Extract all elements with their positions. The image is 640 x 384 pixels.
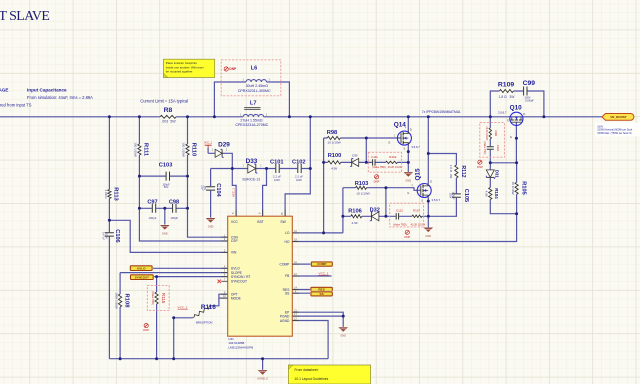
capacitor C110 (DNP): [483, 142, 500, 155]
net label COMP: [310, 261, 333, 267]
svg-text:100 1/10W: 100 1/10W: [182, 142, 186, 157]
svg-text:10 1/10W: 10 1/10W: [327, 141, 340, 145]
DNP marker L6: [224, 67, 237, 71]
DNP box around R115: [147, 286, 169, 311]
wire Q15 source: [427, 198, 429, 228]
net label RES: [310, 286, 333, 292]
svg-text:D29: D29: [218, 141, 230, 148]
junction: [138, 175, 141, 178]
wire SW pin branch: [285, 117, 310, 216]
svg-text:PGND: PGND: [280, 314, 290, 318]
op-amp U31 controller LM5122: [228, 216, 293, 336]
designator U31: [228, 337, 253, 349]
svg-text:G: G: [407, 191, 409, 195]
svg-text:S: S: [507, 118, 509, 122]
DNP marker R99: [477, 160, 483, 169]
ground sense divider: [160, 225, 170, 235]
junction: [365, 161, 368, 164]
wire HO net: [292, 214, 516, 242]
resistor R98: [327, 130, 341, 145]
svg-text:D33: D33: [246, 158, 258, 165]
svg-text:C112: C112: [396, 209, 403, 213]
svg-text:GND: GND: [405, 178, 411, 182]
junction: [384, 186, 387, 189]
diode D33: [243, 158, 263, 181]
DNP marker C111: [374, 175, 380, 184]
svg-text:200V: 200V: [449, 193, 452, 199]
svg-text:COMP: COMP: [279, 262, 290, 266]
junction: [261, 357, 264, 360]
svg-text:DNP: DNP: [143, 328, 149, 332]
svg-text:100pF: 100pF: [149, 216, 157, 220]
svg-text:SYNCOUT: SYNCOUT: [135, 275, 149, 279]
wire VIN pin: [109, 220, 227, 252]
DNP box around C112 R107: [390, 203, 424, 227]
junction: [515, 212, 518, 215]
svg-text:R103: R103: [355, 181, 369, 187]
svg-text:From datasheet:: From datasheet:: [295, 368, 319, 372]
wire R106 row: [343, 215, 386, 217]
svg-text:D31: D31: [495, 170, 500, 179]
wire LO riser 1: [323, 138, 325, 233]
resistor R110: [182, 142, 197, 157]
svg-text:G: G: [510, 135, 512, 139]
junction: [384, 215, 387, 218]
DNP box around L6: [221, 60, 281, 96]
wire COMP stub: [292, 263, 311, 265]
wire FB net: [292, 275, 331, 277]
wire SW rail right: [264, 116, 602, 118]
wire AGND_S rail: [109, 358, 328, 360]
svg-text:HO: HO: [284, 240, 289, 244]
svg-text:R110: R110: [191, 143, 197, 157]
svg-text:DNP: DNP: [374, 179, 380, 183]
svg-text:AGND_S: AGND_S: [257, 376, 268, 380]
svg-text:100V: 100V: [296, 178, 302, 182]
svg-text:be mounted together.: be mounted together.: [166, 70, 194, 74]
wire R99 D31 column: [490, 117, 516, 214]
svg-text:Input Capacitance: Input Capacitance: [27, 88, 67, 93]
svg-text:30uH 2.45mΩ: 30uH 2.45mΩ: [246, 84, 269, 88]
svg-text:R104: R104: [494, 188, 499, 199]
svg-text:L7: L7: [250, 100, 257, 106]
ground AGND_S: [257, 370, 268, 380]
resistor R102 (DNP): [386, 155, 403, 169]
pin names U31: [231, 220, 290, 323]
svg-text:R108: R108: [123, 294, 129, 309]
svg-text:C111: C111: [371, 155, 378, 159]
ground C104: [206, 218, 216, 228]
capacitor C112 (DNP): [393, 209, 407, 227]
wire R105 column: [516, 163, 518, 214]
svg-text:10.1 Layout Guidelines: 10.1 Layout Guidelines: [295, 377, 329, 381]
svg-text:100 1/10W: 100 1/10W: [134, 142, 138, 157]
capacitor C99: [523, 80, 536, 102]
svg-text:UVLO: UVLO: [137, 266, 146, 270]
junction: [322, 161, 325, 164]
junction: [213, 115, 216, 118]
svg-text:25V: 25V: [203, 186, 206, 191]
svg-text:C103: C103: [159, 163, 173, 169]
svg-text:DNP: DNP: [229, 67, 237, 71]
no-ERC marker SYNCOUT: [218, 280, 222, 284]
svg-text:R105: R105: [520, 181, 526, 194]
capacitor C97: [147, 200, 157, 220]
svg-text:(Value TBD): (Value TBD): [372, 166, 386, 169]
ground Q15 source: [424, 228, 434, 238]
junction: [489, 161, 492, 164]
wire BST pin: [263, 169, 267, 217]
svg-text:VIN: VIN: [231, 251, 237, 255]
svg-text:VCC_1: VCC_1: [204, 142, 213, 145]
wire gate link: [490, 162, 516, 164]
pin stubs U31: [221, 210, 299, 321]
svg-text:3 Ohm: 3 Ohm: [104, 189, 108, 199]
resistor R115 (DNP): [151, 291, 166, 305]
svg-text:R109: R109: [498, 82, 514, 89]
svg-text:C101: C101: [270, 160, 284, 166]
svg-text:S: S: [403, 146, 405, 150]
svg-text:DNP: DNP: [404, 235, 410, 239]
resistor R108: [115, 292, 130, 309]
svg-text:D32: D32: [370, 208, 380, 214]
svg-text:S: S: [421, 198, 423, 202]
svg-text:R102: R102: [389, 155, 397, 159]
junction: [515, 137, 518, 140]
svg-text:R107: R107: [413, 209, 421, 213]
svg-text:D30: D30: [352, 154, 358, 158]
svg-text:43.2K 1/10W: 43.2K 1/10W: [485, 126, 488, 141]
wire R116 column: [173, 318, 175, 359]
labels Q10: [498, 104, 525, 139]
svg-text:10 1/10W: 10 1/10W: [511, 182, 515, 195]
svg-text:GND: GND: [340, 334, 346, 338]
capacitor C105: [449, 189, 470, 202]
svg-text:(Value TBD): (Value TBD): [393, 224, 407, 227]
net label VCC_1 at FB: [318, 272, 328, 276]
svg-text:R112: R112: [460, 165, 466, 177]
svg-text:LM5122MH/NOPB: LM5122MH/NOPB: [228, 345, 253, 349]
svg-text:SYNCOUT: SYNCOUT: [231, 280, 247, 284]
svg-text:T SLAVE: T SLAVE: [0, 9, 49, 24]
resistor R99 (DNP): [485, 126, 498, 141]
svg-text:D: D: [410, 127, 412, 131]
wire CSP net: [139, 117, 227, 241]
wire MODE stub: [219, 297, 228, 299]
port VB_BOOST: [602, 114, 634, 121]
junction: [172, 316, 175, 319]
resistor R103: [355, 181, 370, 195]
junction: [407, 150, 410, 153]
DNP marker R115: [143, 324, 149, 333]
svg-text:From simulation: 44uF, Irms =: From simulation: 44uF, Irms = 2.89A: [27, 95, 93, 100]
note inductor footprints: [164, 59, 215, 77]
wire R108 column: [119, 273, 121, 359]
wire SS stub: [292, 292, 311, 294]
wire EP pin: [292, 312, 343, 316]
wire SYNCIN net: [132, 276, 228, 278]
wire R116 left: [174, 317, 193, 319]
svg-text:MODE: MODE: [231, 296, 242, 300]
wire VCC-BST row: [211, 168, 311, 170]
wire gate drop Q14: [365, 138, 367, 162]
svg-text:C98: C98: [169, 200, 179, 206]
svg-text:BST: BST: [257, 220, 263, 224]
DNP marker C112: [404, 230, 410, 239]
wire C111 row: [366, 161, 408, 163]
labels Q14: [388, 122, 420, 151]
wire PGND pin: [292, 316, 343, 327]
svg-text:4.99: 4.99: [331, 166, 337, 170]
diode D31: [486, 170, 499, 179]
transistor Q10: [510, 112, 523, 125]
svg-text:CPRX3231L-300MC: CPRX3231L-300MC: [238, 89, 271, 93]
svg-text:GND: GND: [425, 234, 431, 238]
net label SYNCOUT: [130, 274, 155, 281]
resistor R112: [449, 165, 466, 179]
svg-text:VCC_1: VCC_1: [178, 306, 188, 310]
transistor Q14: [397, 131, 411, 146]
svg-text:VCC_1: VCC_1: [319, 272, 329, 276]
diode D32: [370, 208, 380, 221]
junction: [155, 275, 158, 278]
junction: [407, 115, 410, 118]
junction: [265, 167, 268, 170]
svg-text:DNP: DNP: [477, 165, 483, 169]
svg-text:C104: C104: [215, 183, 221, 197]
junction: [288, 115, 291, 118]
junction: [309, 167, 312, 170]
inductor L6 (DNP): [238, 66, 271, 93]
svg-text:SS: SS: [320, 292, 324, 296]
svg-text:3,5,6,7: 3,5,6,7: [411, 145, 420, 149]
junction: [186, 175, 189, 178]
wire R98 row: [324, 137, 401, 139]
svg-text:R99: R99: [494, 131, 498, 137]
svg-text:R111: R111: [143, 143, 149, 157]
wire AGND pin: [292, 321, 328, 359]
svg-text:R113: R113: [112, 187, 118, 201]
junction: [489, 115, 492, 118]
svg-text:150K 1/10W: 150K 1/10W: [115, 292, 119, 309]
svg-text:C110: C110: [496, 145, 500, 152]
svg-text:1000pF: 1000pF: [451, 191, 454, 200]
svg-text:R98: R98: [327, 130, 337, 136]
junction: [427, 200, 430, 203]
wire R115 column: [156, 277, 158, 359]
svg-text:100V: 100V: [104, 233, 107, 239]
inductor L7: [235, 100, 268, 127]
svg-text:1000pF: 1000pF: [525, 99, 534, 103]
svg-text:COMP: COMP: [317, 262, 326, 266]
svg-text:VB_BOOST: VB_BOOST: [610, 115, 627, 119]
svg-text:2.2 uF: 2.2 uF: [273, 174, 281, 178]
svg-text:L6: L6: [251, 66, 258, 72]
junction: [309, 115, 312, 118]
junction: [108, 219, 111, 222]
wire CSN net: [188, 117, 228, 237]
net label UVLO: [129, 265, 153, 272]
svg-text:SW: SW: [280, 220, 286, 224]
wire VCC_1 power stub: [207, 148, 209, 154]
resistor R111: [134, 142, 149, 157]
resistor R105: [511, 181, 527, 194]
power port VCC_1 at D29: [204, 142, 213, 148]
svg-text:VCC_1: VCC_1: [231, 188, 235, 197]
wire SW rail left: [0, 116, 243, 118]
wire Q15 drain column: [427, 117, 429, 184]
wire OPT link: [211, 294, 228, 306]
svg-text:Q10: Q10: [510, 104, 523, 111]
annotation text output power: [595, 123, 640, 136]
svg-text:CSP: CSP: [231, 239, 239, 243]
svg-text:3,5,6,7: 3,5,6,7: [498, 111, 507, 115]
DNP box around R99 C110: [480, 123, 505, 158]
svg-text:C97: C97: [147, 200, 157, 206]
diode D29: [212, 141, 230, 157]
svg-text:GND: GND: [162, 231, 168, 235]
net label SS: [310, 291, 333, 297]
wire snubber loop: [490, 91, 544, 117]
svg-text:4.99: 4.99: [351, 221, 357, 225]
svg-text:1.8 Ω 3W: 1.8 Ω 3W: [449, 165, 453, 179]
svg-text:.003 5W: .003 5W: [161, 120, 176, 124]
svg-text:R115: R115: [161, 293, 166, 304]
svg-text:Q15: Q15: [415, 168, 422, 181]
wire R100 row: [324, 161, 367, 163]
svg-text:ired from input TS: ired from input TS: [0, 102, 32, 107]
svg-text:0.47 uF: 0.47 uF: [102, 232, 105, 241]
resistor R113: [104, 187, 118, 201]
wire D29 branch: [208, 153, 232, 168]
pin numbers U31: [223, 212, 297, 321]
labels Q15: [407, 168, 440, 202]
capacitor C101: [270, 160, 284, 182]
svg-text:27uH 1.55mΩ: 27uH 1.55mΩ: [240, 119, 263, 123]
resistor R107 (DNP): [411, 209, 426, 227]
junction: [515, 161, 518, 164]
svg-text:22uF: 22uF: [200, 185, 203, 191]
resistor R8: [160, 107, 176, 124]
junction: [427, 152, 430, 155]
svg-text:3,5,6,7: 3,5,6,7: [432, 198, 441, 202]
svg-text:VCC: VCC: [231, 220, 239, 224]
svg-text:R8: R8: [164, 107, 173, 114]
resistor R109: [498, 82, 515, 99]
svg-text:BRSOPTION: BRSOPTION: [196, 320, 212, 324]
junction: [231, 167, 234, 170]
svg-text:R100: R100: [328, 153, 342, 159]
ground Q14 source: [404, 172, 414, 182]
wire C104 leg: [210, 169, 212, 218]
wire LO riser 2: [342, 188, 344, 233]
wire C97 C98 row: [139, 207, 187, 209]
svg-text:R106: R106: [348, 209, 362, 215]
svg-text:7x IPP036N15NM6ATMA1: 7x IPP036N15NM6ATMA1: [422, 110, 461, 114]
svg-text:C102: C102: [292, 160, 306, 166]
svg-text:LO: LO: [285, 231, 290, 235]
wire Q14 drain: [407, 117, 409, 131]
wire gate drop Q15: [385, 188, 387, 217]
svg-text:C99: C99: [523, 80, 536, 87]
junction: [108, 115, 111, 118]
junction: [341, 215, 344, 218]
svg-text:B340CE-13: B340CE-13: [243, 178, 261, 182]
svg-text:AGE: AGE: [0, 88, 8, 93]
capacitor C106: [102, 229, 121, 242]
DNP box around C111 R102: [368, 152, 401, 172]
svg-text:R116: R116: [201, 304, 216, 311]
junction: [365, 137, 368, 140]
ground PGND: [338, 327, 348, 337]
resistor R116 (option jumper): [178, 304, 217, 324]
wire SLOPE net: [120, 272, 228, 274]
junction: [138, 115, 141, 118]
capacitor C103: [159, 163, 173, 190]
junction: [186, 207, 189, 210]
junction: [407, 161, 410, 164]
svg-text:100V: 100V: [274, 178, 280, 182]
capacitor C104: [200, 183, 221, 197]
junction: [172, 357, 175, 360]
wire VCC pin: [232, 169, 236, 217]
capacitor C111 (DNP): [371, 155, 386, 169]
wire Q10 gate: [515, 122, 517, 162]
wire AGND_S stub: [262, 359, 264, 370]
svg-text:AGND: AGND: [280, 319, 290, 323]
svg-text:(Value TBD): (Value TBD): [151, 291, 154, 305]
note layout guidelines: [288, 365, 370, 384]
wire R112 C105 branch: [428, 154, 456, 217]
transistor Q15: [417, 183, 431, 198]
svg-text:100pF: 100pF: [170, 216, 178, 220]
wire gnd stub: [164, 208, 166, 224]
wire L6 branch right: [267, 82, 290, 117]
wire LO net: [292, 232, 343, 234]
resistor R100: [328, 153, 342, 170]
wire Q14 source: [407, 145, 409, 172]
wire VIN column: [108, 117, 110, 359]
svg-text:1.8 Ω 3W: 1.8 Ω 3W: [499, 95, 516, 99]
wire R103 row: [343, 188, 421, 191]
junction: [427, 115, 430, 118]
svg-text:D: D: [430, 180, 432, 184]
wire RES stub: [292, 289, 311, 291]
junction: [138, 207, 141, 210]
svg-text:C106: C106: [114, 229, 120, 242]
junction: [427, 215, 430, 218]
svg-text:GND: GND: [208, 224, 214, 228]
svg-text:10 1/10W: 10 1/10W: [356, 191, 369, 195]
wire C112 row: [386, 215, 428, 217]
svg-text:43.2K 1/10W: 43.2K 1/10W: [388, 166, 403, 169]
svg-text:Current Limit = 15A typical: Current Limit = 15A typical: [140, 98, 188, 103]
junction: [163, 207, 166, 210]
wire C103 row: [139, 175, 187, 177]
junction: [186, 115, 189, 118]
capacitor C98: [169, 200, 179, 220]
svg-text:SYNCIN / RT: SYNCIN / RT: [231, 275, 251, 279]
resistor R106: [348, 209, 362, 225]
junction: [322, 231, 325, 234]
wire L6 branch left: [214, 82, 246, 117]
junction: [119, 357, 122, 360]
svg-text:CPEX3231A-270MC: CPEX3231A-270MC: [235, 123, 268, 127]
capacitor C102: [292, 160, 306, 182]
svg-text:(Value TBD): (Value TBD): [483, 142, 486, 155]
junction: [342, 315, 345, 318]
svg-text:G: G: [388, 141, 390, 145]
